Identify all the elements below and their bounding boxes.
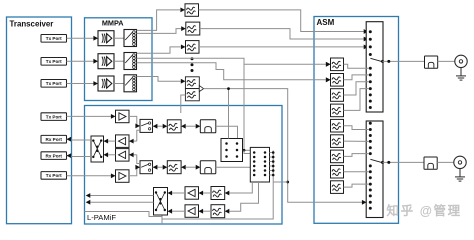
wire Tx4 to PA4	[67, 115, 112, 117]
wire matrix row 4 to bus	[270, 165, 274, 167]
wire LC2 to matrix switch	[216, 166, 251, 168]
throw contact SW-A 6	[369, 73, 372, 76]
cross switch XS1 (DPDT)	[91, 136, 104, 162]
junction bus 4	[272, 165, 275, 168]
wire LF2 to coupler LC2	[186, 166, 196, 168]
junction bus 3	[272, 160, 275, 163]
arrow into LNA2	[129, 152, 134, 157]
svg-text:Tx Port: Tx Port	[46, 114, 62, 119]
filter AF5 (ASM)	[331, 119, 344, 132]
port Tx1	[41, 35, 67, 43]
svg-text:Rx Port: Rx Port	[46, 137, 63, 142]
port Tx5	[41, 172, 67, 180]
svg-text:Tx Port: Tx Port	[46, 173, 62, 178]
LNA4 (L-PAMiF)	[185, 205, 199, 218]
filter AF7 (ASM)	[331, 150, 344, 163]
wire into LNA1 stub	[134, 140, 137, 142]
duplexer common-port triangle	[199, 86, 203, 92]
port Tx4	[41, 113, 67, 121]
wire SPDT2 to LNA2	[137, 155, 140, 164]
port Rx2	[41, 152, 67, 160]
bus column right of matrix and bottom rail	[162, 151, 273, 220]
Transceiver block	[7, 17, 72, 224]
arrow into XS2 bottom	[168, 209, 173, 214]
junction matrix feed	[243, 149, 246, 152]
arrow into AF1	[326, 62, 331, 67]
antenna ANT1	[455, 55, 467, 67]
arrow out B at L-PAMiF edge	[86, 200, 91, 205]
wire SW2 out B down to L-PAMiF matrix	[137, 58, 245, 150]
arrow into XS2 top	[168, 191, 173, 196]
arrow into ASM SW-B lower	[362, 200, 367, 205]
arrow into PA5	[111, 173, 116, 178]
wire matrix row 1 to bus	[270, 152, 274, 154]
throw contact SW-B 2	[369, 128, 372, 131]
net to ASM filter AF1	[244, 63, 326, 65]
band switch SW1 (MMPA)	[124, 30, 137, 47]
wire XS1 to Rx2	[67, 155, 92, 158]
wire AF2 to SW-A	[344, 75, 369, 80]
band switch SW3 (MMPA)	[124, 75, 137, 92]
svg-text:Tx Port: Tx Port	[46, 59, 62, 64]
junction duplexer net / L-PAMiF bus	[286, 181, 289, 184]
throw contact SW-B 8	[369, 170, 372, 173]
power amp PA5 (L-PAMiF)	[116, 170, 130, 183]
ellipsis dot 3	[191, 69, 194, 72]
wire AF9 to SW-B	[344, 184, 369, 187]
antenna port box PB (L-PAMiF)	[221, 139, 243, 162]
arrow into LNA3	[199, 191, 204, 196]
filter LF2	[167, 161, 181, 174]
svg-text:Tx Port: Tx Port	[46, 81, 62, 86]
filter AF2 (ASM)	[331, 74, 344, 87]
wire XS2 out A to left edge	[90, 195, 153, 197]
wire AF3 to SW-A	[344, 82, 369, 95]
wire AF4 to SW-A	[344, 89, 369, 111]
svg-text:Transceiver: Transceiver	[10, 20, 54, 29]
wire Tx3 to PA3	[67, 83, 94, 85]
arrow into ASM SW-A row2	[364, 37, 369, 42]
wire LNA3 out to XS2	[172, 192, 185, 194]
throw contact SW-B 11	[369, 189, 372, 192]
arrow into SPDT2	[135, 165, 140, 170]
throw contact SW-A 10	[369, 100, 372, 103]
ground below antenna at 461,61.4	[456, 68, 466, 81]
wire XS2 out B to left edge	[90, 201, 153, 203]
arrow into duplexer	[181, 79, 186, 84]
bus exit wire toward ASM	[273, 181, 288, 183]
port Rx1	[41, 135, 67, 143]
wire into LNA2 stub	[134, 154, 137, 156]
power amp PA2 (MMPA)	[98, 54, 114, 69]
junction bus 5	[272, 169, 275, 172]
arrow into FB1	[180, 8, 185, 13]
wire AF7 to SW-B	[344, 154, 369, 157]
arrow into coupler LC1	[196, 124, 201, 129]
wire PA2 to SW2	[114, 60, 124, 62]
coupler LC1	[200, 120, 216, 133]
SW-B pole line	[370, 159, 381, 162]
wire matrix row 5 to bus	[270, 170, 274, 172]
SW-A pole line	[370, 58, 381, 61]
throw contact SW-A 7	[369, 80, 372, 83]
filter AF4 (ASM)	[331, 104, 344, 117]
LNA2 (L-PAMiF)	[116, 149, 130, 162]
arrow into PA3	[93, 81, 98, 86]
filter AF9 (ASM)	[331, 181, 344, 194]
wire duplexer branch down to PB	[228, 89, 230, 139]
filter LF1	[167, 120, 181, 133]
throw contact SW-A 3	[369, 45, 372, 48]
wire matrix row 6 to bus	[270, 174, 274, 176]
arrow into PA1	[93, 36, 98, 41]
junction on antenna wire 1	[387, 60, 390, 63]
wire C1 to antenna ANT1	[438, 60, 455, 62]
ASM block	[314, 17, 399, 224]
power amp PA1 (MMPA)	[98, 31, 114, 46]
svg-text:MMPA: MMPA	[102, 19, 124, 28]
wire Tx1 to PA1	[67, 37, 94, 39]
filter LF3	[211, 187, 225, 200]
junction bus 6	[272, 174, 275, 177]
svg-text:L-PAMiF: L-PAMiF	[87, 213, 116, 222]
wire AF1 to SW-A	[344, 64, 369, 68]
throw contact SW-B 9	[369, 176, 372, 179]
throw contact SW-B 3	[369, 134, 372, 137]
throw contact SW-A 8	[369, 87, 372, 90]
arrow into AF1 (at box)	[326, 62, 331, 67]
throw contact SW-A 2	[369, 38, 372, 41]
wire SW2 out C to ASM filter AF2	[137, 63, 326, 80]
arrow into Rx Port 2	[67, 153, 72, 158]
L-PAMiF block	[85, 106, 283, 225]
arrow into LNA4	[199, 209, 204, 214]
arrow into XS1 top	[104, 139, 109, 144]
junction bus 1	[272, 151, 275, 154]
wire SW1 out A to FB1	[137, 10, 181, 31]
port Tx2	[41, 58, 67, 66]
arrow into LNA1	[129, 139, 134, 144]
LNA3 (L-PAMiF)	[185, 187, 199, 200]
wire SPDT1 to filter LF1	[153, 125, 163, 127]
filter AF1 (ASM)	[331, 58, 344, 71]
antenna ANT2	[454, 156, 466, 168]
arrow into PA2	[93, 59, 98, 64]
duplexer DPX (Tx filter)	[185, 77, 199, 89]
throw contact SW-B 14	[369, 207, 372, 210]
junction on antenna wire 2	[387, 161, 390, 164]
junction SW-A output	[381, 60, 384, 63]
arrow into PA4	[111, 114, 116, 119]
throw contact SW-A 9	[369, 93, 372, 96]
cross switch XS2 (DPDT)	[154, 188, 168, 216]
wire PA5 to SPDT2	[129, 167, 137, 176]
wire PA1 to SW1	[114, 37, 124, 39]
arrow into AF2	[326, 77, 331, 82]
arrow into LF1	[163, 124, 168, 129]
port Tx3	[41, 80, 67, 88]
duplexer DPX (Rx filter)	[185, 89, 199, 101]
arrow out A at L-PAMiF edge	[86, 193, 91, 198]
wire AF8 to SW-B	[344, 171, 369, 173]
arrow into AF2 (at box)	[326, 77, 331, 82]
svg-text:知乎 @管理: 知乎 @管理	[386, 203, 462, 218]
wire SW-A to coupler C1	[383, 60, 425, 62]
throw contact SW-A 1	[369, 30, 372, 33]
net FB1 out to ASM SW-A row1	[199, 10, 365, 32]
wire LNA2 out to XS1	[108, 154, 116, 156]
wire AF6 to SW-B	[344, 140, 369, 142]
wire feed into matrix switch	[244, 150, 250, 153]
arrow into SPDT1	[135, 124, 140, 129]
arrow into LF3	[225, 191, 230, 196]
wire Tx2 to PA2	[67, 60, 94, 62]
ellipsis dot 1	[191, 57, 194, 60]
wire matrix row 3 to bus	[270, 161, 274, 163]
ellipsis dot 2	[191, 63, 194, 66]
ASM antenna switch SW-A	[366, 22, 383, 112]
wire duplexer Rx down into L-PAMiF	[181, 95, 186, 113]
filter AF8 (ASM)	[331, 165, 344, 178]
wire matrix to filter LF4	[229, 182, 258, 211]
power amp PA3 (MMPA)	[98, 76, 114, 91]
arrow back into SPDT1	[153, 124, 158, 129]
wire SPDT1 to LNA1	[137, 130, 140, 141]
wire AF5 to SW-B	[344, 126, 369, 130]
throw contact SW-B 5	[369, 146, 372, 149]
filter FB2	[186, 22, 200, 35]
junction on duplexer common wire	[227, 87, 230, 90]
wire SW2 out A to FB3	[137, 47, 181, 53]
throw contact SW-B 10	[369, 183, 372, 186]
arrow into Rx Port 1	[67, 137, 72, 142]
wire XS1 to Rx1	[67, 138, 92, 141]
MMPA block	[85, 18, 153, 101]
svg-text:Rx Port: Rx Port	[46, 153, 63, 158]
throw contact SW-A 11	[369, 106, 372, 109]
wire PA3 to SW3	[114, 83, 124, 85]
arrow into XS1 bottom	[104, 152, 109, 157]
arrow into FB3	[181, 45, 186, 50]
wire Tx5 to PA5	[67, 175, 112, 177]
wire matrix row 2 to bus	[270, 156, 274, 158]
matrix switch MX (L-PAMiF)	[250, 147, 269, 182]
wire LNA4 out to XS2	[172, 210, 185, 212]
filter LF4	[211, 205, 225, 218]
wire SW1 out B to FB2	[137, 29, 182, 34]
switch SPDT1 (L-PAMiF)	[140, 119, 153, 132]
throw contact SW-A 4	[369, 53, 372, 56]
L-PAMiF label compartment line	[85, 212, 163, 225]
wire C2 to antenna ANT2	[437, 161, 454, 163]
throw contact SW-B 12	[369, 194, 372, 197]
junction bus 2	[272, 156, 275, 159]
wire PB to matrix switch	[243, 149, 251, 151]
wire LC1 to port box	[216, 126, 238, 138]
wire SW3 out A to duplexer	[137, 77, 181, 82]
arrow out of LF2 right	[181, 165, 186, 170]
arrow into LF4	[225, 209, 230, 214]
svg-text:Tx Port: Tx Port	[46, 36, 62, 41]
wire LF3 to LNA3	[203, 192, 211, 194]
coupler LC2	[200, 161, 216, 174]
arrow into LF2	[163, 165, 168, 170]
wire LF1 to coupler LC1	[186, 125, 196, 127]
wire LF4 to LNA4	[203, 210, 211, 212]
filter AF3 (ASM)	[331, 89, 344, 102]
filter FB1	[185, 4, 199, 16]
throw contact SW-B 1	[369, 122, 372, 125]
arrow into ASM SW-A row3	[364, 45, 369, 50]
arrow back into SPDT2	[153, 165, 158, 170]
LNA1 (L-PAMiF)	[116, 135, 130, 148]
arrow into FB2	[181, 26, 186, 31]
throw contact SW-B 13	[369, 201, 372, 204]
throw contact SW-B 6	[369, 152, 372, 155]
wire SPDT2 to filter LF2	[153, 166, 163, 168]
power amp PA4 (L-PAMiF)	[116, 110, 130, 123]
net FB3 out to ASM SW-A row3	[199, 46, 365, 48]
coupler C2	[424, 157, 437, 169]
switch SPDT2 (L-PAMiF)	[140, 161, 153, 174]
coupler C1	[425, 56, 438, 68]
arrow out of LF1 right	[181, 124, 186, 129]
net duplexer common to ASM SW-B	[204, 89, 362, 203]
band switch SW2 (MMPA)	[124, 53, 137, 70]
arrow into ASM SW-A row1	[364, 29, 369, 34]
ASM antenna switch SW-B	[366, 121, 383, 218]
junction SW-B output	[381, 161, 384, 164]
filter FB3	[186, 41, 200, 54]
throw contact SW-B 4	[369, 140, 372, 143]
wire SW-B to coupler C2	[383, 161, 425, 163]
net FB2 out to ASM SW-A row2	[200, 29, 365, 39]
ground below antenna at 460,162.4	[455, 169, 465, 182]
filter AF6 (ASM)	[331, 135, 344, 148]
wire LNA1 out to XS1	[108, 140, 116, 142]
svg-text:ASM: ASM	[317, 18, 335, 27]
arrow into coupler LC2	[196, 165, 201, 170]
throw contact SW-B 7	[369, 164, 372, 167]
wire PA4 to SPDT1	[129, 116, 137, 126]
wire matrix to filter LF3	[229, 182, 252, 193]
throw contact SW-A 5	[369, 67, 372, 70]
